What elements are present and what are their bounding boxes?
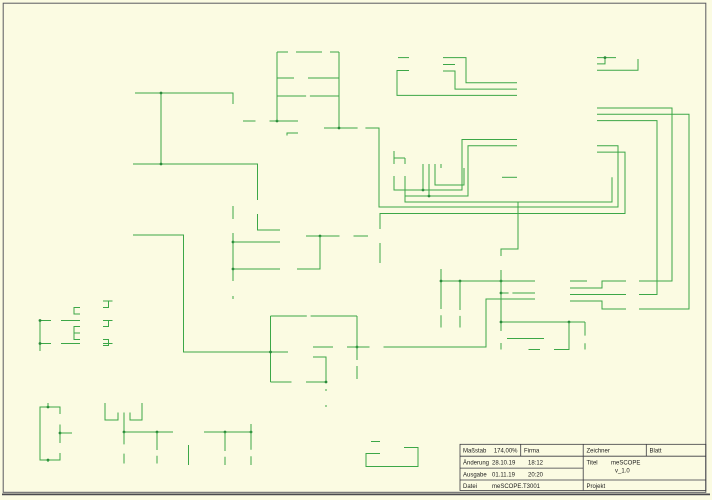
node feedback left junction [276, 120, 279, 123]
wire DAC SYNC to R11 [570, 301, 626, 309]
wire K1 VCC_3 arrow stub [109, 300, 113, 302]
wire LM336 reference rail [501, 321, 585, 323]
wire C4 lower [440, 315, 442, 327]
wire R19 pullup top [404, 158, 406, 164]
wire OLED GND pin to ground [440, 164, 442, 168]
wire R7 to IC4a inverting input [270, 120, 299, 122]
node R3 junctions [232, 241, 235, 244]
wire LP filter vertical to C5 [356, 316, 358, 360]
node rail junctions left [123, 431, 126, 434]
wire VCC_2 arrow above C10 [250, 424, 252, 432]
wire DAC GND to ground bar [570, 280, 587, 282]
wire C10 drop [250, 432, 252, 450]
wire R17 to DAC Vout_A [384, 299, 536, 347]
wire VCC_1 rail R3 R4 [232, 206, 234, 219]
svg-text:Firma: Firma [524, 449, 540, 455]
wire R12 bottom through rail to LM336 [500, 270, 502, 331]
node IC4p junctions [47, 406, 50, 409]
node R16 R17 junction [356, 346, 359, 349]
wire encoder P1 to ground bar [398, 57, 409, 59]
wire R12 top to 3.3V loop [501, 202, 518, 256]
svg-text:Änderung: Änderung [463, 460, 489, 467]
wire IC4p mid to bar [60, 432, 72, 434]
title block row 2 text [463, 460, 640, 467]
wire K1 VCC_1 row [40, 320, 51, 322]
svg-text:174,00%: 174,00% [494, 449, 518, 455]
wire net SPI1_MOSI PA7 to R9 [597, 108, 672, 281]
wire K1 VSS row [40, 343, 51, 345]
svg-text:meSCOPE.T3001: meSCOPE.T3001 [492, 484, 541, 490]
node rail junctions [440, 280, 443, 283]
wire C3 drop [459, 281, 461, 310]
wire AUDIO_IN tip to R8 top [135, 93, 233, 104]
node K1 rail junctions [39, 319, 42, 322]
wire net I2C1_SCL R19 to OLED and PB6 [405, 146, 517, 196]
svg-text:01.11.19: 01.11.19 [492, 472, 516, 478]
svg-text:18:12: 18:12 [528, 461, 544, 467]
node R14 R15 junction [325, 381, 328, 384]
wire diode row D1 D2 [277, 51, 288, 53]
wire LM336 cathode drop [500, 343, 502, 350]
svg-text:meSCOPE: meSCOPE [611, 461, 640, 467]
wire LM336 adj to R13 wiper [507, 338, 544, 340]
wire AUDIO_IN branch down [160, 93, 162, 164]
wire IC1 3.3V loop [405, 177, 612, 202]
wire C9 drop [224, 432, 226, 451]
node IC4b output junction [319, 235, 322, 238]
wire K2 pin1 to VCC_3 [105, 403, 118, 420]
wire C12 drop [156, 432, 158, 450]
wire 1V_OCT jack to IC4c output [133, 235, 288, 352]
wire R8 wiper to R7 [243, 120, 256, 122]
wire IC2 GND pin drop [188, 445, 190, 465]
wire K1 right hook links [103, 301, 109, 308]
wire feedback loop left vertical [276, 52, 278, 121]
wire R5 to IC4b input [258, 214, 281, 230]
wire encoder A to PA8 [443, 58, 517, 83]
wire IC4a noninverting input to ground [287, 133, 298, 136]
wire IC4b feedback via R2 [297, 236, 320, 269]
node LM336 rail junctions [500, 321, 503, 324]
wire feedback loop right vertical [338, 52, 340, 128]
wire STM32 GND pins to ground bar [597, 57, 616, 59]
wire R13 to rail [554, 322, 569, 350]
svg-text:v_1.0: v_1.0 [615, 469, 630, 475]
node SDA junction [422, 189, 425, 192]
node IC4a output junction [338, 127, 341, 130]
wire rail K2 to IC2 IN [124, 431, 173, 433]
svg-text:Blatt: Blatt [650, 449, 662, 455]
title block frame [460, 444, 706, 490]
wire IC4a output to C2 [324, 127, 358, 129]
wire K1 VCC_1 arrow stub [103, 320, 113, 322]
wire OLED SDA pin drop [422, 164, 424, 190]
wire encoder P2 to PA10 [397, 71, 517, 96]
wire IC2 OUT rail [204, 431, 251, 433]
wire R15 to ground [325, 389, 327, 391]
wire net Trigger PA0 to T1 collector [380, 152, 625, 229]
node AUDIO_OUT junction [160, 163, 163, 166]
wire C1 row [277, 95, 306, 97]
wire OLED SCL pin drop [428, 164, 430, 196]
wire IC4c inv input to R16 [313, 346, 333, 348]
wire C15 drop [584, 322, 586, 336]
wire IC4b output to R1 and T1 base [306, 235, 340, 237]
svg-text:Titel: Titel [587, 461, 598, 467]
wire 120pF row [271, 315, 307, 317]
wire R14 loop [271, 381, 292, 383]
wire DAC DIN to R9 [570, 281, 626, 288]
wire OLED VCC pin to 3.3V arrow [435, 164, 464, 185]
title block row 4 text [463, 484, 606, 490]
wire C3 lower [459, 316, 461, 328]
wire IC4b inverting input [233, 241, 280, 243]
svg-text:Zeichner: Zeichner [587, 449, 610, 455]
wire K1 left rail to ground [39, 321, 41, 352]
wire IC4d plus input [371, 441, 380, 443]
wire C5 to ground [356, 366, 358, 379]
wire net SYNC PA6 to R11 [597, 114, 689, 309]
wire encoder B to PA9 [443, 71, 517, 89]
wire R16 to R17 [347, 346, 370, 348]
title block row 1 text [463, 449, 662, 455]
wire R6 row [277, 77, 294, 79]
wire K2 pin2 to regulator rail [123, 413, 125, 433]
wire R18 pullup top [393, 151, 395, 164]
wire IC4d feedback loop [366, 448, 418, 467]
svg-text:20:20: 20:20 [528, 472, 544, 478]
wire DAC SCLK to R10 [570, 294, 626, 296]
wire encoder C to ground bar [443, 64, 455, 66]
wire C16 drop [123, 432, 125, 444]
wire STM32 left VCC_2 arrow [502, 176, 517, 178]
wire R13 left to ground [529, 349, 540, 352]
svg-text:Projekt: Projekt [587, 484, 606, 490]
wire VCC_2 3.3V rail to DAC VDD [440, 269, 442, 309]
wire K1 VSS_1 arrow stub [103, 343, 113, 345]
node SCL junction [428, 195, 431, 198]
wire net Audio_IN from C2 to PA1 [365, 128, 618, 207]
wire K2 pin3 to VCC_1 [130, 403, 142, 420]
node GND junction [604, 56, 607, 59]
svg-text:28.10.19: 28.10.19 [492, 461, 516, 467]
wire IC4p supply loop [40, 407, 60, 460]
wire AUDIO_OUT tip to R5 [133, 164, 258, 200]
node IC4c output junction [269, 351, 272, 354]
wire K1 left hook links [74, 308, 80, 315]
svg-text:Ausgabe: Ausgabe [463, 472, 487, 478]
heavy bottom sheet line [2, 493, 710, 495]
node AUDIO_IN junction [160, 92, 163, 95]
node OUT rail junctions [224, 431, 227, 434]
wire IC4p arrows stubs [47, 403, 49, 407]
svg-text:Maßstab: Maßstab [463, 449, 487, 455]
title block row 3 text [463, 469, 630, 479]
wire DAC Vout_B via C7 [501, 292, 509, 294]
node Vout_B junction [500, 292, 503, 295]
wire STM32 +3.3V to VCC_2 arrow [597, 59, 638, 70]
wire IC4p cap link [59, 425, 61, 444]
wire 120pF loop left vertical [270, 316, 272, 382]
wire net SPI1_SCK PA5 to R10 [597, 121, 657, 295]
svg-text:Datei: Datei [463, 484, 477, 490]
wire T1 emitter to ground [379, 243, 381, 263]
